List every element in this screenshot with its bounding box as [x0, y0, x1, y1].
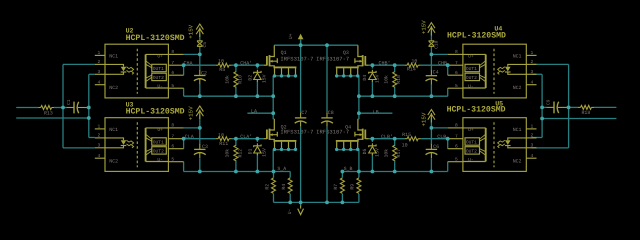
svg-text:6: 6: [455, 143, 458, 149]
svg-text:U+: U+: [157, 54, 163, 60]
svg-text:R13: R13: [44, 110, 53, 116]
svg-text:OUT2: OUT2: [466, 75, 477, 81]
svg-text:U-: U-: [468, 83, 474, 89]
svg-text:2: 2: [531, 133, 534, 139]
svg-text:4: 4: [531, 79, 534, 85]
svg-text:HCPL-3120SMD: HCPL-3120SMD: [447, 106, 506, 115]
svg-text:4: 4: [98, 79, 101, 85]
svg-text:3: 3: [98, 69, 101, 75]
svg-text:4: 4: [531, 153, 534, 159]
svg-text:R11: R11: [219, 141, 228, 147]
svg-text:U-: U-: [157, 83, 163, 89]
svg-text:NC1: NC1: [109, 127, 118, 133]
svg-text:IRFS3107-7: IRFS3107-7: [316, 55, 349, 62]
svg-text:OUT1: OUT1: [466, 139, 477, 145]
svg-text:2: 2: [531, 59, 534, 65]
svg-text:10k: 10k: [225, 149, 231, 158]
svg-text:OUT1: OUT1: [153, 139, 164, 145]
svg-text:D5: D5: [362, 149, 368, 155]
svg-text:8: 8: [171, 123, 174, 129]
svg-text:R2: R2: [265, 184, 271, 190]
svg-text:OUT2: OUT2: [153, 75, 164, 81]
svg-text:U+: U+: [468, 54, 474, 60]
svg-text:8: 8: [455, 49, 458, 55]
svg-text:5: 5: [455, 83, 458, 89]
svg-text:NC1: NC1: [513, 127, 522, 133]
svg-text:15V: 15V: [261, 74, 267, 83]
svg-text:U+: U+: [468, 127, 474, 133]
svg-text:NC2: NC2: [109, 85, 118, 91]
svg-text:5: 5: [171, 156, 174, 162]
svg-text:R18: R18: [582, 110, 591, 116]
svg-text:NC2: NC2: [109, 158, 118, 164]
svg-text:5: 5: [455, 156, 458, 162]
svg-text:7: 7: [455, 133, 458, 139]
svg-text:R9: R9: [350, 184, 356, 190]
svg-text:IRFS3107-7: IRFS3107-7: [280, 55, 313, 62]
svg-text:2: 2: [98, 59, 101, 65]
svg-text:HCPL-3120SMD: HCPL-3120SMD: [126, 34, 185, 43]
svg-text:3: 3: [531, 142, 534, 148]
svg-text:8: 8: [455, 123, 458, 129]
svg-text:U-: U-: [157, 157, 163, 163]
svg-text:+15V: +15V: [187, 24, 194, 38]
svg-text:6: 6: [171, 70, 174, 76]
svg-text:R15: R15: [402, 132, 411, 138]
svg-text:U-: U-: [287, 209, 293, 215]
svg-text:R14: R14: [407, 66, 416, 72]
svg-text:NC2: NC2: [513, 158, 522, 164]
svg-text:NC2: NC2: [513, 85, 522, 91]
svg-text:10k: 10k: [384, 149, 390, 158]
svg-text:C8: C8: [328, 110, 334, 116]
svg-text:U+: U+: [288, 33, 294, 39]
svg-text:7: 7: [455, 60, 458, 66]
svg-text:IRFS3107-7: IRFS3107-7: [280, 128, 313, 135]
svg-text:OUT2: OUT2: [466, 148, 477, 154]
svg-text:15V: 15V: [261, 148, 267, 157]
svg-text:OUT1: OUT1: [466, 66, 477, 72]
svg-text:10k: 10k: [225, 75, 231, 84]
svg-text:NC1: NC1: [513, 54, 522, 60]
svg-text:IRFS3107-7: IRFS3107-7: [316, 128, 349, 135]
svg-text:7: 7: [171, 60, 174, 66]
svg-text:4: 4: [98, 153, 101, 159]
svg-text:1: 1: [531, 124, 534, 130]
svg-text:R4: R4: [281, 184, 287, 190]
svg-text:D4: D4: [362, 75, 368, 81]
svg-text:3: 3: [98, 142, 101, 148]
svg-text:6: 6: [171, 143, 174, 149]
svg-text:+15V: +15V: [187, 106, 194, 120]
svg-text:1: 1: [98, 124, 101, 130]
svg-text:3: 3: [531, 69, 534, 75]
svg-text:10: 10: [402, 142, 408, 148]
svg-text:+15V: +15V: [420, 112, 427, 126]
svg-text:6: 6: [455, 70, 458, 76]
svg-text:HCPL-3120SMD: HCPL-3120SMD: [447, 32, 506, 41]
svg-text:1: 1: [531, 50, 534, 56]
svg-text:R7: R7: [333, 184, 339, 190]
svg-text:NC1: NC1: [109, 54, 118, 60]
svg-text:D2: D2: [248, 75, 254, 81]
svg-text:C9: C9: [545, 99, 551, 105]
svg-text:C10: C10: [433, 40, 439, 49]
svg-text:U-: U-: [468, 157, 474, 163]
svg-text:OUT2: OUT2: [153, 148, 164, 154]
svg-text:5: 5: [171, 83, 174, 89]
svg-text:10k: 10k: [384, 75, 390, 84]
svg-text:HCPL-3120SMD: HCPL-3120SMD: [126, 108, 185, 117]
svg-text:8: 8: [171, 49, 174, 55]
svg-text:C7: C7: [301, 110, 307, 116]
svg-text:U+: U+: [157, 127, 163, 133]
svg-text:C1: C1: [66, 99, 72, 105]
svg-text:7: 7: [171, 133, 174, 139]
svg-text:1: 1: [98, 50, 101, 56]
svg-text:2: 2: [98, 133, 101, 139]
svg-text:C4: C4: [433, 70, 439, 76]
svg-text:OUT1: OUT1: [153, 66, 164, 72]
svg-text:+15V: +15V: [420, 20, 427, 34]
